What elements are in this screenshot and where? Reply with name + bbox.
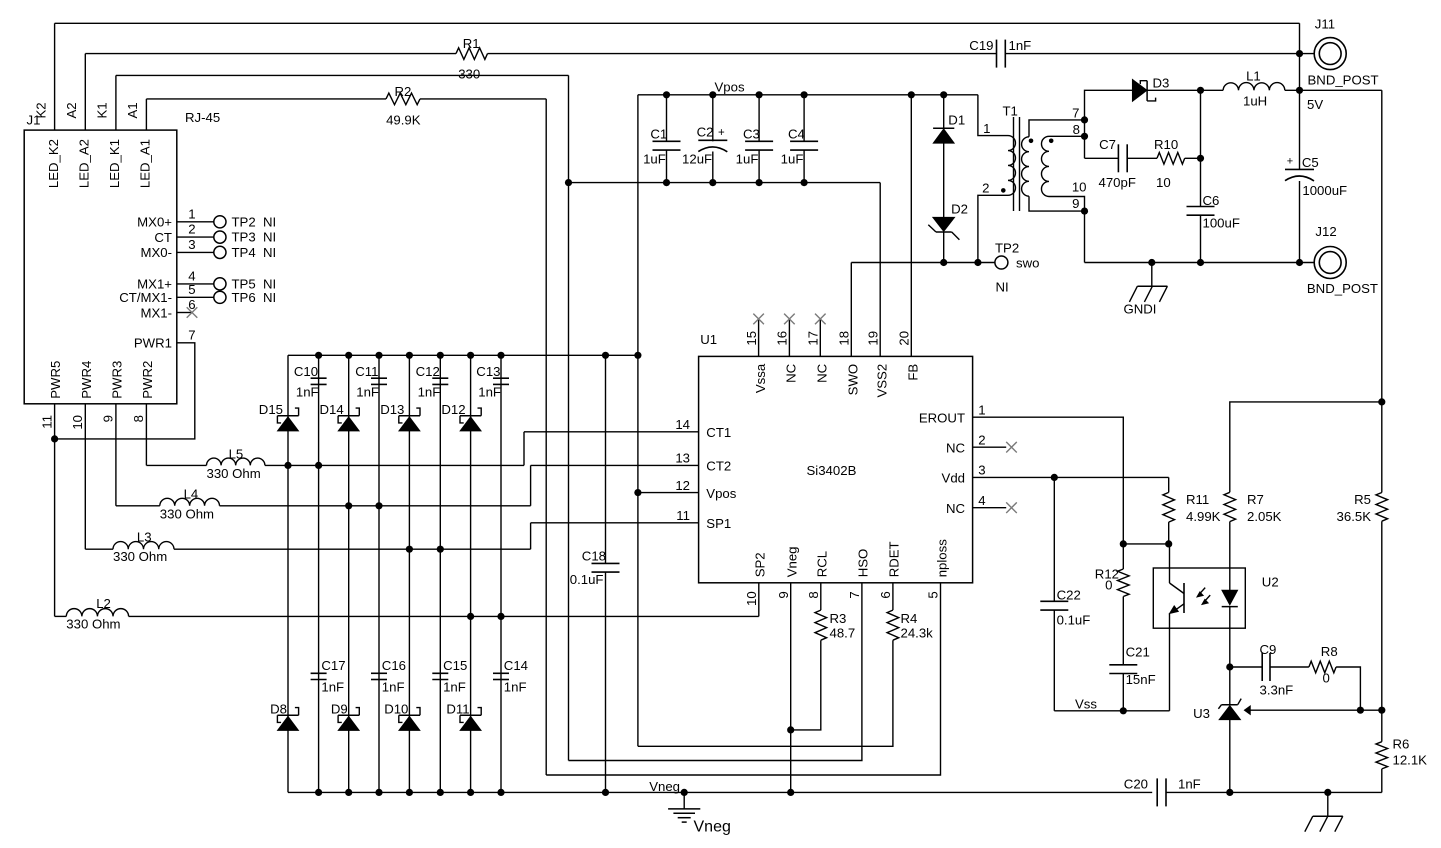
junction L5/C10 column: [315, 462, 322, 469]
svg-text:D2: D2: [951, 202, 968, 217]
junction Vpos column / pin 12: [634, 489, 641, 496]
wire C9 row: [1230, 666, 1262, 668]
svg-text:15nF: 15nF: [1126, 672, 1156, 687]
wire opto emitter drop: [1169, 628, 1171, 711]
junction sec 9/10: [1081, 208, 1088, 215]
wire net A1 to resistor R2: [146, 98, 386, 100]
junction Vpos rail / FB column: [908, 91, 915, 98]
wire C22 bottom stub: [1053, 610, 1055, 711]
svg-text:10: 10: [1072, 180, 1087, 195]
svg-text:5: 5: [188, 282, 195, 297]
pin name MX0+ inside J1: [137, 215, 172, 230]
U1 part number Si3402B: [807, 463, 857, 478]
wire J1 pin 5 to testpoint TP6: [177, 296, 214, 298]
wire EROUT link row: [1123, 543, 1168, 545]
svg-text:7: 7: [188, 327, 195, 342]
junction rail / U3 column: [1226, 789, 1233, 796]
wire C3 top stub: [758, 95, 760, 142]
svg-text:5V: 5V: [1307, 97, 1323, 112]
capacitor C6: [1187, 207, 1215, 216]
svg-text:Vdd: Vdd: [942, 471, 965, 486]
net label swo: [1016, 256, 1039, 271]
resistor R3 label: [830, 611, 847, 626]
wire J1 pin 10 down to L3: [84, 404, 86, 549]
capacitor C5 label: [1302, 155, 1319, 170]
svg-text:NI: NI: [996, 280, 1009, 295]
wire Vneg rail: [288, 791, 1152, 793]
resistor R6 value 12.1K: [1393, 753, 1428, 768]
pin name CT2 U1 left: [706, 459, 731, 474]
testpoint TP6 NI note: [263, 290, 276, 305]
pin name MX0- inside J1: [140, 245, 172, 260]
junction caps rail / C3: [756, 179, 763, 186]
svg-text:L1: L1: [1246, 69, 1261, 84]
svg-text:EROUT: EROUT: [919, 410, 965, 425]
svg-text:SWO: SWO: [846, 364, 861, 396]
wire R7 top link: [1230, 402, 1382, 492]
svg-text:RJ-45: RJ-45: [185, 110, 220, 125]
capacitor C6 label: [1203, 193, 1220, 208]
svg-text:C16: C16: [382, 658, 406, 673]
junction Vneg rail / U1 pin 9: [787, 789, 794, 796]
svg-text:1uF: 1uF: [643, 152, 666, 167]
pin number 14 of U1: [675, 417, 690, 432]
svg-text:C20: C20: [1124, 777, 1148, 792]
connector J1 label: [27, 113, 41, 128]
junction top rail x=348.7: [345, 352, 352, 359]
op-amp U1 Si3402B body: [699, 356, 973, 582]
junction Vneg rail / ground stub: [681, 789, 688, 796]
U3 label: [1193, 706, 1210, 721]
svg-text:10: 10: [70, 415, 85, 430]
svg-text:C2: C2: [697, 124, 714, 139]
capacitor C19 label: [969, 38, 993, 53]
pin name Vpos U1 left: [706, 486, 736, 501]
transformer T1 pin 2 label: [982, 180, 989, 195]
wire R2 to nploss drop: [420, 98, 546, 100]
connector J1 part name RJ-45: [185, 110, 220, 125]
capacitor C12: [432, 378, 448, 384]
wire output bottom rail: [1085, 262, 1315, 264]
connector J12 binding post: [1314, 247, 1346, 279]
svg-text:+: +: [1287, 155, 1293, 167]
svg-text:C15: C15: [443, 658, 467, 673]
wire SWO riser: [850, 263, 852, 357]
svg-text:NI: NI: [263, 214, 276, 229]
svg-text:1nF: 1nF: [1178, 777, 1201, 792]
capacitor C14 value 1nF: [504, 679, 527, 694]
svg-text:CT1: CT1: [706, 425, 731, 440]
svg-text:R5: R5: [1354, 492, 1371, 507]
svg-text:2: 2: [978, 433, 985, 448]
wire C19 to J11: [1005, 53, 1314, 55]
inductor L4 value 330 Ohm: [160, 506, 214, 521]
capacitor C7 value 470pF: [1099, 175, 1136, 190]
svg-text:1nF: 1nF: [356, 385, 379, 400]
net label 5V: [1307, 97, 1323, 112]
svg-text:1nF: 1nF: [382, 679, 405, 694]
diode D15: [277, 408, 298, 431]
capacitor C20: [1157, 778, 1166, 806]
wire Vdd route: [973, 476, 1169, 478]
svg-text:16: 16: [775, 331, 790, 346]
svg-text:1: 1: [978, 403, 985, 418]
diode D8: [277, 708, 298, 731]
svg-text:C9: C9: [1260, 642, 1277, 657]
wire R5 bottom stub: [1381, 521, 1383, 710]
wire L2 row to SP2: [129, 615, 759, 617]
capacitor C12 value 1nF: [418, 385, 441, 400]
capacitor C19: [997, 40, 1006, 68]
connector J12 label: [1315, 224, 1336, 239]
resistor R8 value 0: [1323, 670, 1330, 685]
resistor R7: [1224, 492, 1236, 521]
pin name PWR3 inside J1: [109, 361, 124, 399]
testpoint TP5 NI note: [263, 277, 276, 292]
wire network column x=440.3: [439, 355, 441, 792]
capacitor C2 plus sign: [718, 127, 725, 139]
transformer T1 primary phase dot: [1001, 188, 1006, 193]
diode D3 label: [1153, 76, 1170, 91]
capacitor C2 label: [697, 124, 714, 139]
svg-text:Vssa: Vssa: [753, 363, 768, 393]
svg-text:100uF: 100uF: [1203, 216, 1240, 231]
svg-text:C17: C17: [321, 658, 345, 673]
capacitor C2 (polarized): [698, 140, 727, 152]
wire riser to CT2: [530, 465, 532, 505]
wire U3 cathode: [1229, 667, 1231, 705]
transformer T1 secondary winding B: [1041, 136, 1049, 196]
svg-text:1nF: 1nF: [443, 679, 466, 694]
diode D14 label: [319, 402, 343, 417]
wire C18 column lower: [605, 572, 607, 792]
wire network column x=348.7: [348, 355, 350, 792]
svg-text:Vpos: Vpos: [715, 80, 745, 95]
wire opto collector: [1169, 544, 1171, 583]
net label Vneg: [649, 779, 680, 794]
capacitor C13 label: [476, 364, 500, 379]
capacitor C21 value 15nF: [1126, 672, 1156, 687]
wire L5 row to CT1 riser: [265, 464, 524, 466]
svg-text:2.05K: 2.05K: [1247, 509, 1282, 524]
wire SP1 pin 11: [531, 522, 699, 524]
svg-text:1nF: 1nF: [418, 385, 441, 400]
wire J1 pin 7 PWR1 loop: [55, 343, 195, 439]
testpoint label TP3: [232, 230, 256, 245]
wire J1 pin 8 down to L5: [145, 404, 147, 466]
resistor R4: [887, 610, 899, 640]
wire J1 pin 4 to testpoint TP5: [177, 283, 214, 285]
svg-text:D15: D15: [259, 402, 283, 417]
junction swo row / D2: [940, 259, 947, 266]
svg-text:A1: A1: [125, 102, 140, 118]
svg-text:3: 3: [188, 237, 195, 252]
svg-text:18: 18: [837, 331, 852, 346]
wire T1 pin 7: [1029, 120, 1085, 137]
capacitor C20 value 1nF: [1178, 777, 1201, 792]
wire T1 pin2 exit: [978, 195, 1008, 262]
diode D13: [399, 408, 420, 431]
resistor R2 value 49.9K: [386, 112, 421, 127]
junction R8 / U3 ref row: [1357, 707, 1364, 714]
svg-text:D11: D11: [446, 701, 469, 716]
wire Vpos pin 12: [638, 492, 699, 494]
wire Vneg rail after C20: [1166, 791, 1382, 793]
junction L3/C12 column: [437, 546, 444, 553]
pin name NC U1 top: [784, 363, 799, 383]
diode D8 label: [270, 701, 287, 716]
wire D3 to L1: [1147, 89, 1223, 91]
diode D1: [933, 128, 954, 143]
svg-text:330: 330: [458, 66, 480, 81]
wire C9 to R8: [1270, 666, 1309, 668]
capacitor C15 value 1nF: [443, 679, 466, 694]
wire D2 bottom stub: [943, 232, 945, 263]
pin number 8 of U1: [806, 591, 821, 598]
resistor R4 label: [901, 611, 918, 626]
svg-text:12uF: 12uF: [682, 152, 712, 167]
testpoint TP6 circle: [214, 291, 226, 303]
svg-text:14: 14: [675, 417, 690, 432]
testpoint TP2 swo circle: [995, 256, 1008, 269]
junction EROUT/R12: [1120, 540, 1127, 547]
wire R12 to C21: [1122, 597, 1124, 665]
wire J1 pin 1 to testpoint TP2: [177, 221, 214, 223]
net label A2 at J1 top: [64, 102, 79, 118]
wire network column x=501: [500, 355, 502, 792]
svg-text:10: 10: [744, 591, 759, 606]
diode D1 label: [948, 112, 965, 127]
svg-text:R7: R7: [1247, 492, 1264, 507]
svg-text:D13: D13: [380, 402, 404, 417]
junction Vdd / C22 column: [1051, 474, 1058, 481]
net label Vss: [1075, 697, 1097, 712]
wire HSO pin 7 route: [569, 583, 862, 761]
wire U3 anode: [1229, 720, 1231, 793]
svg-text:Si3402B: Si3402B: [807, 463, 857, 478]
svg-text:48.7: 48.7: [830, 626, 856, 641]
junction top rail / C18 column: [602, 352, 609, 359]
svg-text:C22: C22: [1057, 588, 1081, 603]
pin number 5 of U1: [926, 591, 941, 598]
inductor L5 label: [229, 447, 244, 462]
svg-text:A2: A2: [64, 102, 79, 118]
svg-text:4: 4: [978, 493, 985, 508]
testpoint TP3 circle: [214, 231, 226, 243]
pin number 1 of U1: [978, 403, 985, 418]
svg-text:NI: NI: [263, 290, 276, 305]
capacitor C2 value 12uF: [682, 152, 712, 167]
inductor L5 value 330 Ohm: [207, 466, 261, 481]
svg-text:SP1: SP1: [706, 516, 731, 531]
svg-text:C14: C14: [504, 658, 528, 673]
pin name RCL U1 bottom: [815, 551, 830, 577]
capacitor C15 label: [443, 658, 467, 673]
svg-text:8: 8: [131, 415, 146, 422]
transformer T1 label: [1003, 104, 1018, 119]
pin number 18 of U1: [837, 331, 852, 346]
pin number 11 of U1: [676, 508, 690, 523]
testpoint label TP6: [232, 290, 256, 305]
svg-text:7: 7: [847, 591, 862, 598]
wire nploss riser from R2: [545, 99, 547, 775]
svg-text:17: 17: [806, 331, 821, 346]
wire L4 row left: [116, 505, 160, 507]
svg-text:C12: C12: [416, 364, 440, 379]
svg-text:NC: NC: [784, 363, 799, 383]
svg-text:T1: T1: [1003, 104, 1018, 119]
wire C4 bottom stub: [803, 150, 805, 183]
wire U1 pin stub x=820.3: [819, 319, 821, 357]
capacitor C7 label: [1099, 137, 1116, 152]
svg-text:C4: C4: [788, 127, 805, 142]
diode D15 label: [259, 402, 283, 417]
capacitor C6 value 100uF: [1203, 216, 1240, 231]
svg-text:Vpos: Vpos: [706, 486, 736, 501]
transformer T1 pin 7 label: [1072, 105, 1079, 120]
no-connect X on U1 top pin: [784, 314, 795, 325]
capacitor C15: [432, 673, 448, 679]
resistor R11 label: [1186, 492, 1209, 507]
junction top rail x=318.6: [315, 352, 322, 359]
capacitor C17: [311, 673, 327, 679]
capacitor C19 value 1nF: [1009, 38, 1032, 53]
svg-text:15: 15: [744, 331, 759, 346]
svg-text:D8: D8: [270, 701, 287, 716]
svg-text:2: 2: [982, 180, 989, 195]
resistor R10 label: [1154, 137, 1178, 152]
pin number 6 of J1: [188, 297, 195, 312]
wire SP2 riser: [758, 583, 760, 617]
resistor R3 value 48.7: [830, 626, 856, 641]
testpoint TP4 circle: [214, 246, 226, 258]
svg-text:1000uF: 1000uF: [1302, 183, 1347, 198]
wire U1 pin 2 NC stub: [973, 446, 1007, 448]
capacitor C22: [1040, 601, 1068, 610]
diode D3 (schottky): [1132, 79, 1155, 101]
svg-text:1nF: 1nF: [321, 679, 344, 694]
capacitor C9 value 3.3nF: [1260, 682, 1294, 697]
svg-text:0: 0: [1323, 670, 1330, 685]
junction Vneg rail x=501: [497, 789, 504, 796]
pin name MX1+ inside J1: [137, 277, 172, 292]
capacitor C22 value 0.1uF: [1057, 613, 1091, 628]
svg-text:J11: J11: [1315, 17, 1335, 32]
junction L5/D15 column: [284, 462, 291, 469]
svg-text:LED_A2: LED_A2: [77, 139, 92, 188]
junction rail / chassis ground: [1324, 789, 1331, 796]
pin name SWO U1 top: [846, 364, 861, 396]
pin number 4 of J1: [188, 269, 195, 284]
diode D9 label: [331, 701, 348, 716]
inductor L3 label: [137, 530, 152, 545]
optocoupler U2 body: [1153, 568, 1245, 628]
connector J12 type BND_POST: [1307, 281, 1378, 296]
testpoint TP5 circle: [214, 278, 226, 290]
pin number 9 of J1: [101, 415, 116, 422]
svg-text:K2: K2: [33, 102, 48, 118]
wire Vss rail: [1054, 710, 1169, 712]
capacitor C10 value 1nF: [296, 385, 319, 400]
pin name CT1 U1 left: [706, 425, 731, 440]
pin number 5 of J1: [188, 282, 195, 297]
wire C1 top stub: [666, 95, 668, 142]
no-connect X on U1 top pin: [753, 314, 764, 325]
capacitor C14 label: [504, 658, 528, 673]
pin number 12 of U1: [675, 478, 690, 493]
svg-text:SP2: SP2: [753, 552, 768, 577]
svg-text:330 Ohm: 330 Ohm: [207, 466, 261, 481]
wire U1 pin stub x=758.6: [758, 319, 760, 357]
svg-text:4.99K: 4.99K: [1186, 509, 1221, 524]
wire Vpos top rail: [638, 94, 978, 96]
svg-text:0.1uF: 0.1uF: [1057, 613, 1091, 628]
resistor R5: [1376, 493, 1388, 522]
inductor L2 value 330 Ohm: [66, 617, 120, 632]
junction Vpos rail / C2: [709, 91, 716, 98]
wire 5V rail drop: [1381, 90, 1383, 492]
svg-text:L2: L2: [96, 596, 111, 611]
wire net A1 vertical from J1 LED_A1: [145, 99, 147, 130]
svg-text:470pF: 470pF: [1099, 175, 1136, 190]
svg-text:NC: NC: [815, 363, 830, 383]
resistor R8: [1309, 661, 1336, 673]
svg-text:C21: C21: [1126, 645, 1150, 660]
pin name LED_K1 inside J1: [107, 139, 122, 188]
connector J11 label: [1315, 17, 1335, 32]
wire swo row: [851, 262, 995, 264]
junction caps rail / C2: [709, 179, 716, 186]
capacitor C14: [493, 673, 509, 679]
wire C6 column upper: [1200, 90, 1202, 206]
pin name NC U1 top: [815, 363, 830, 383]
inductor L5: [207, 458, 265, 465]
capacitor C18 value 0.1uF: [570, 572, 604, 587]
svg-text:C13: C13: [476, 364, 500, 379]
svg-text:Vneg: Vneg: [785, 546, 800, 577]
pin number 17 of U1: [806, 331, 821, 346]
svg-text:1nF: 1nF: [478, 385, 501, 400]
wire R8 to node: [1336, 667, 1360, 710]
inductor L1 value 1uH: [1243, 93, 1267, 108]
testpoint label TP2: [232, 214, 256, 229]
no-connect X on U1 top pin: [815, 314, 826, 325]
junction top rail / Vpos feed column: [634, 352, 641, 359]
svg-text:BND_POST: BND_POST: [1308, 73, 1379, 88]
wire RCL pin 8 stub: [820, 583, 822, 610]
wire C2 top stub: [712, 95, 714, 142]
svg-text:9: 9: [1072, 196, 1079, 211]
capacitor C4 value 1uF: [781, 152, 804, 167]
wire net K2 horizontal to output: [55, 22, 1300, 24]
junction Vneg rail x=470.6: [467, 789, 474, 796]
svg-text:C18: C18: [582, 549, 606, 564]
svg-text:D9: D9: [331, 701, 348, 716]
svg-text:49.9K: 49.9K: [386, 112, 421, 127]
wire network column x=379: [378, 355, 380, 792]
svg-text:+: +: [718, 127, 725, 139]
wire R4 bottom to Vpos feed: [638, 640, 893, 746]
capacitor C21: [1109, 665, 1137, 674]
junction Vneg rail / C18: [602, 789, 609, 796]
svg-text:13: 13: [675, 451, 690, 466]
junction 5V rail / C5 column: [1296, 87, 1303, 94]
svg-text:TP4: TP4: [232, 245, 256, 260]
wire riser to SP1: [530, 523, 532, 549]
pin name Vdd U1 right: [942, 471, 965, 486]
capacitor C3 label: [743, 127, 760, 142]
U1 reference label: [700, 332, 717, 347]
